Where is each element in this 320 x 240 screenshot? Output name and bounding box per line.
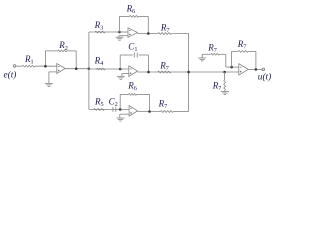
svg-text:R3: R3: [94, 20, 104, 32]
svg-text:C2: C2: [109, 96, 118, 108]
svg-text:R7: R7: [159, 60, 169, 72]
svg-text:R6: R6: [126, 4, 136, 16]
svg-text:R7: R7: [212, 80, 222, 92]
svg-text:R1: R1: [24, 54, 34, 66]
svg-text:R7: R7: [237, 39, 247, 51]
svg-text:R7: R7: [158, 99, 168, 111]
svg-text:R4: R4: [94, 56, 104, 68]
svg-text:R6: R6: [127, 81, 137, 93]
svg-text:R7: R7: [207, 42, 217, 54]
svg-text:R7: R7: [160, 22, 170, 34]
svg-text:R5: R5: [94, 96, 104, 108]
svg-text:C1: C1: [128, 42, 137, 54]
svg-text:R2: R2: [58, 40, 68, 52]
svg-text:e(t): e(t): [4, 70, 17, 81]
svg-text:u(t): u(t): [258, 71, 271, 82]
